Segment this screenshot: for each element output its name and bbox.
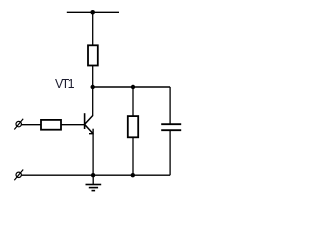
wire from R3 to bottom rail: [132, 137, 134, 175]
transistor VT1: [85, 113, 94, 134]
resistor R3: [128, 116, 138, 137]
wire emitter down to ground rail: [92, 134, 94, 175]
wire bottom ground rail: [21, 174, 170, 176]
wire top power rail: [67, 11, 119, 13]
terminal input port bottom: [14, 170, 23, 181]
capacitor C1: [161, 124, 181, 130]
node junction top rail: [90, 10, 95, 15]
node junction collector left: [91, 85, 95, 89]
resistor R1: [88, 45, 98, 65]
wire from collector rail down to transistor: [92, 87, 94, 116]
wire collector rail: [93, 86, 170, 88]
node junction bottom R3: [131, 173, 135, 177]
node junction collector right: [131, 85, 135, 89]
wire from collector rail down to R3: [132, 87, 134, 116]
wire from R2 to base: [61, 124, 85, 126]
wire from top terminal to R2: [21, 124, 41, 126]
wire from R1 to collector node: [92, 66, 94, 88]
terminal input port top: [14, 119, 23, 130]
label VT1: [55, 77, 73, 91]
resistor R2: [41, 120, 61, 130]
wire from C1 to bottom rail: [169, 130, 171, 175]
wire from top rail to R1: [92, 12, 94, 45]
node junction bottom emitter: [91, 173, 95, 177]
wire from collector rail corner down to C1: [169, 87, 171, 124]
ground: [86, 175, 102, 190]
